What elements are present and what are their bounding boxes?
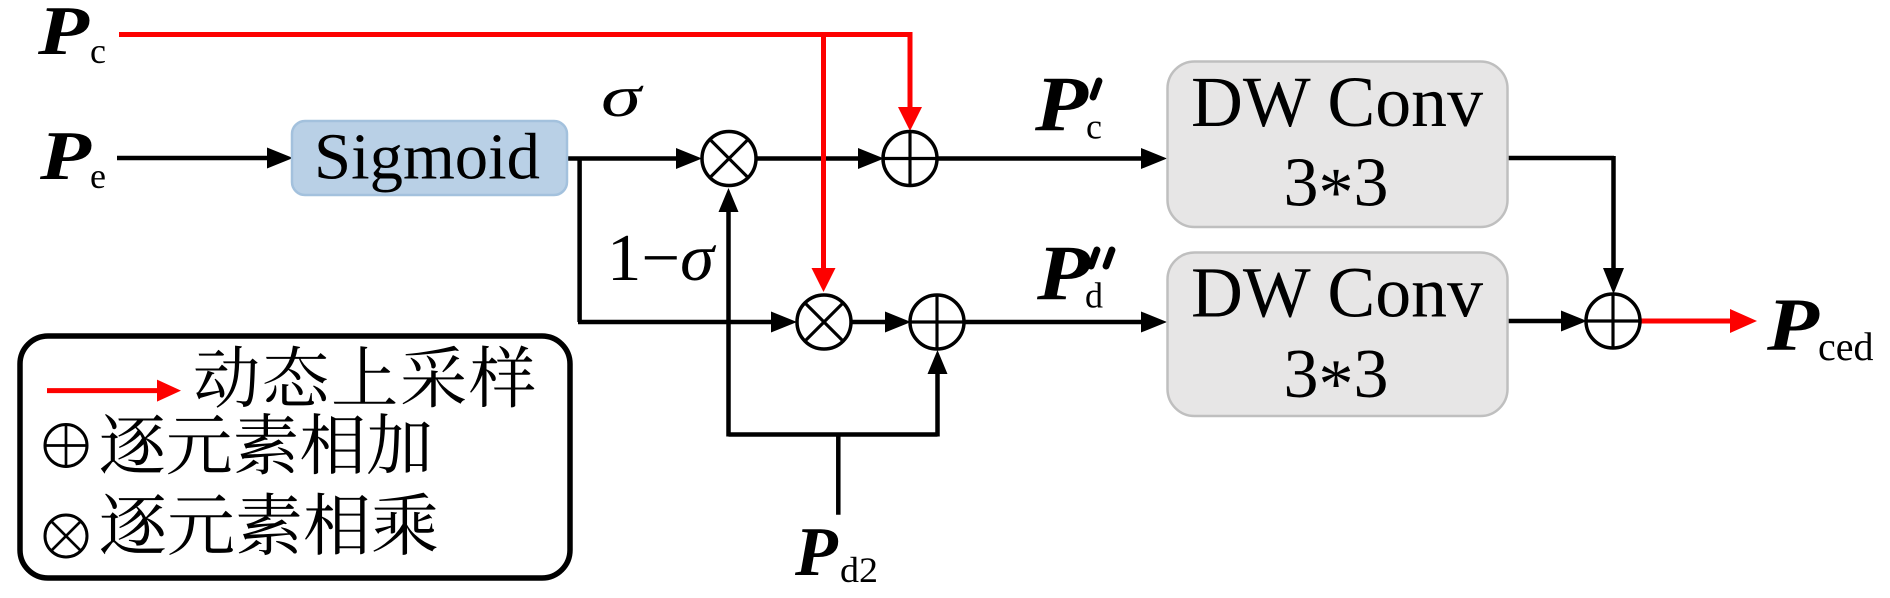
svg-text:e: e xyxy=(90,156,106,196)
svg-text:σ: σ xyxy=(601,64,644,129)
svg-text:d2: d2 xyxy=(840,550,878,590)
svg-text:P: P xyxy=(794,514,839,591)
svg-text:1−σ: 1−σ xyxy=(607,221,717,295)
svg-text:ced: ced xyxy=(1818,324,1874,369)
svg-text:d: d xyxy=(1085,276,1103,316)
svg-text:P: P xyxy=(1766,284,1820,367)
svg-text:3*3: 3*3 xyxy=(1284,145,1389,232)
svg-text:3*3: 3*3 xyxy=(1284,336,1389,423)
svg-text:P: P xyxy=(1034,60,1090,147)
svg-text:DW Conv: DW Conv xyxy=(1191,254,1483,333)
svg-text:P: P xyxy=(1036,229,1092,316)
svg-text:P: P xyxy=(39,118,93,195)
svg-text:c: c xyxy=(1086,107,1102,147)
svg-text:c: c xyxy=(90,31,106,71)
svg-text:DW Conv: DW Conv xyxy=(1191,63,1483,142)
svg-text:Sigmoid: Sigmoid xyxy=(314,121,540,194)
svg-text:P: P xyxy=(37,0,91,70)
